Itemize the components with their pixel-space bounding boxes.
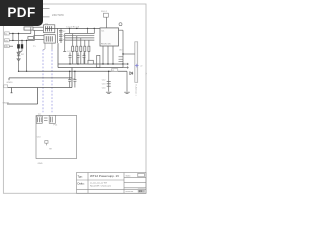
svg-text:Navid WT. Checksum: Navid WT. Checksum bbox=[90, 186, 111, 188]
svg-text:GND1: GND1 bbox=[7, 82, 14, 84]
svg-text:C13: C13 bbox=[102, 84, 107, 86]
svg-text:WT12 Powersupp. 1V: WT12 Powersupp. 1V bbox=[90, 174, 119, 178]
svg-text:GNDE: GNDE bbox=[3, 103, 10, 105]
svg-text:PC1: PC1 bbox=[54, 125, 59, 127]
svg-text:xx-xxx-xxx-xx WT: xx-xxx-xxx-xx WT bbox=[90, 182, 108, 184]
svg-text:FB VD GN: FB VD GN bbox=[101, 43, 111, 45]
svg-text:D5 L2: D5 L2 bbox=[101, 11, 108, 13]
svg-text:230V 50Hz: 230V 50Hz bbox=[52, 14, 65, 17]
svg-text:C10: C10 bbox=[37, 137, 42, 139]
svg-text:xx.xx.xx: xx.xx.xx bbox=[126, 191, 135, 193]
svg-text:D-Antenne 1: D-Antenne 1 bbox=[135, 85, 138, 97]
svg-text:Seite: Seite bbox=[126, 174, 132, 177]
svg-text:R2: R2 bbox=[63, 31, 65, 33]
svg-text:PE: PE bbox=[5, 46, 8, 48]
svg-text:Typ:: Typ: bbox=[78, 174, 83, 178]
svg-text:C14: C14 bbox=[102, 88, 107, 90]
svg-text:D2: D2 bbox=[21, 54, 25, 56]
svg-text:J1x: J1x bbox=[144, 73, 146, 76]
svg-text:R9: R9 bbox=[49, 148, 52, 150]
svg-text:T1: T1 bbox=[33, 46, 36, 48]
svg-text:C12: C12 bbox=[102, 80, 107, 82]
svg-text:C1 C2 R1 C3: C1 C2 R1 C3 bbox=[66, 26, 80, 28]
svg-text:C4 C5 C6: C4 C5 C6 bbox=[67, 51, 77, 53]
svg-text:L1: L1 bbox=[112, 70, 114, 72]
svg-text:GND: GND bbox=[38, 163, 43, 165]
svg-text:Doku:: Doku: bbox=[78, 182, 85, 186]
svg-text:J2: J2 bbox=[140, 65, 143, 67]
